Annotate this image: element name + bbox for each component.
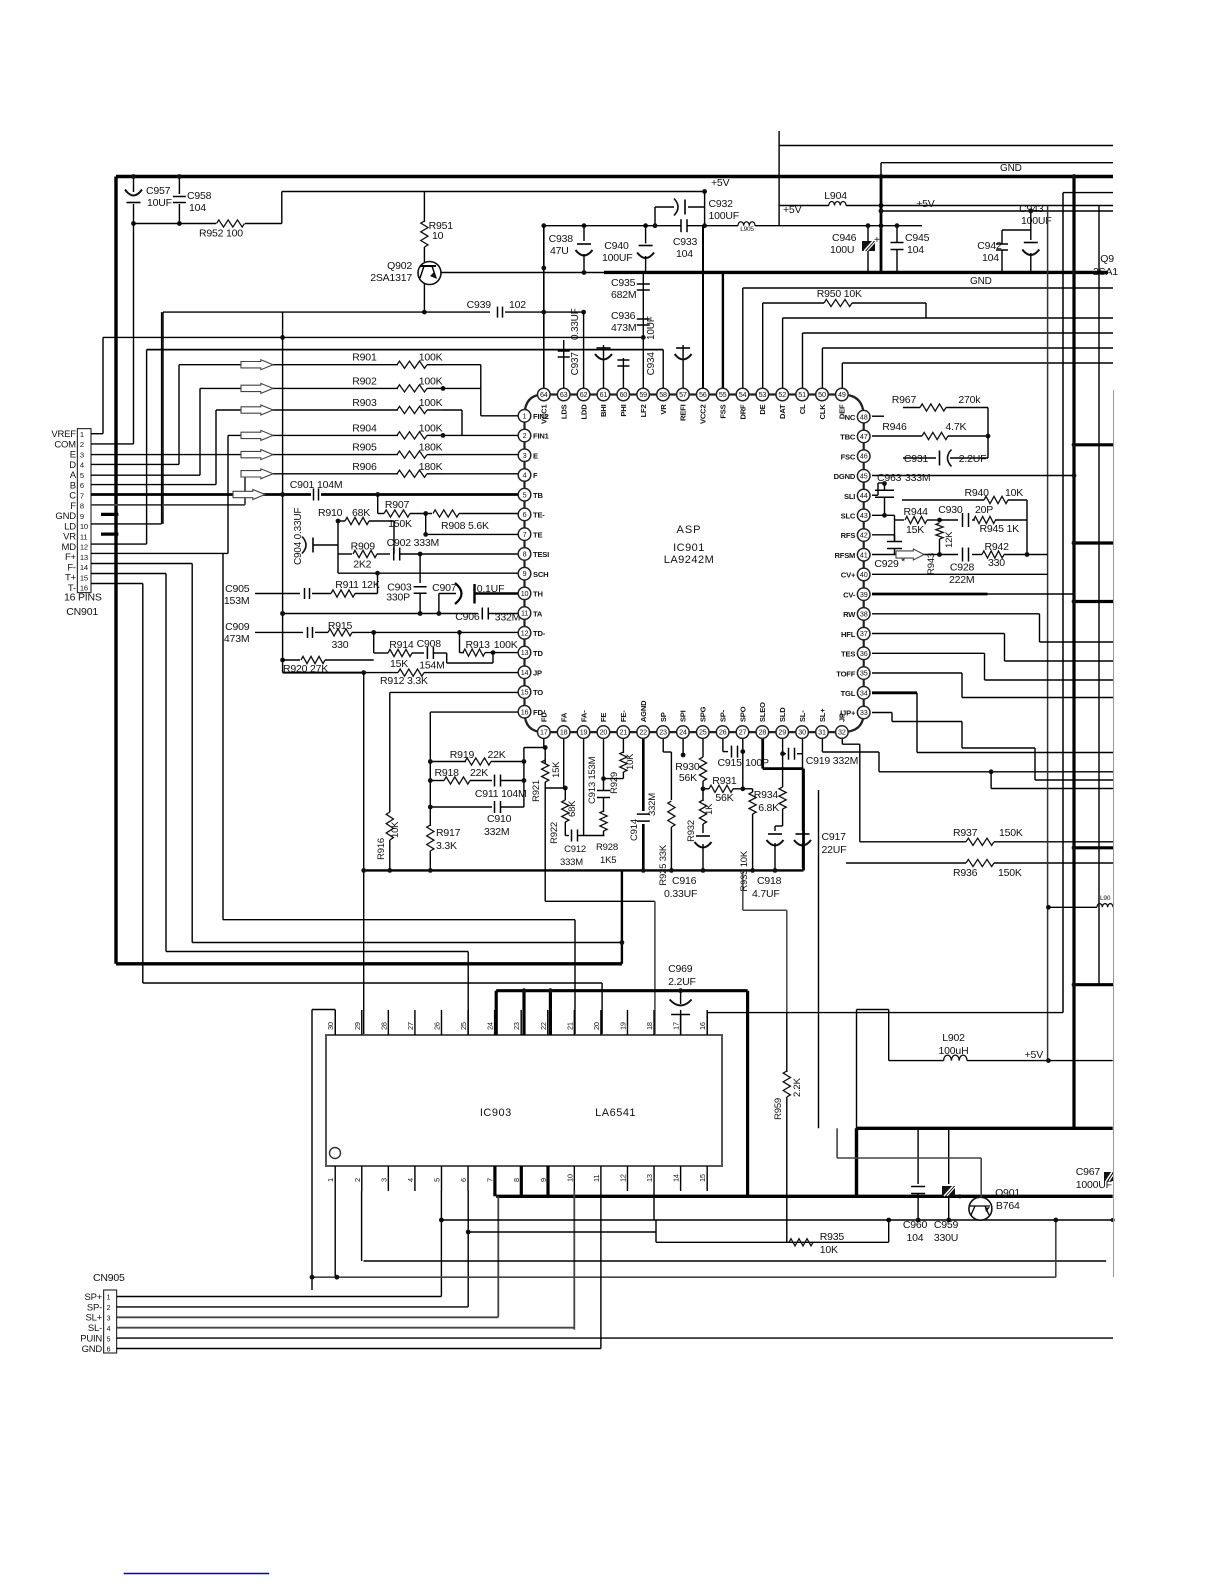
svg-text:104: 104 [907, 244, 924, 256]
svg-text:7: 7 [80, 491, 84, 500]
svg-text:13: 13 [645, 1174, 654, 1182]
svg-text:41: 41 [860, 550, 868, 559]
svg-text:270k: 270k [958, 394, 981, 406]
svg-text:100U: 100U [830, 244, 854, 256]
svg-text:15: 15 [521, 688, 529, 697]
svg-text:FSS: FSS [718, 404, 727, 418]
svg-text:SP: SP [659, 712, 668, 722]
svg-text:57: 57 [679, 390, 687, 399]
svg-text:11: 11 [592, 1175, 601, 1182]
svg-text:R931: R931 [712, 775, 737, 787]
svg-text:CN901: CN901 [66, 606, 98, 618]
svg-text:10: 10 [80, 522, 88, 531]
svg-text:C907: C907 [432, 582, 457, 594]
svg-text:2SA1317: 2SA1317 [370, 272, 412, 284]
svg-text:59: 59 [639, 390, 647, 399]
svg-text:332M: 332M [484, 826, 509, 838]
svg-text:19: 19 [580, 728, 588, 737]
svg-text:1: 1 [80, 430, 84, 439]
svg-text:3.3K: 3.3K [436, 840, 457, 852]
svg-text:6: 6 [523, 510, 527, 519]
svg-text:DRF: DRF [738, 404, 747, 420]
svg-text:50: 50 [818, 390, 826, 399]
svg-text:58: 58 [659, 390, 667, 399]
svg-text:C963: C963 [877, 472, 902, 484]
svg-text:FE-: FE- [619, 710, 628, 722]
svg-text:30: 30 [798, 728, 806, 737]
svg-text:5: 5 [523, 490, 527, 499]
svg-text:1: 1 [326, 1178, 335, 1182]
svg-text:60: 60 [619, 390, 627, 399]
svg-text:13: 13 [80, 553, 88, 562]
svg-text:56: 56 [699, 390, 707, 399]
svg-text:C969: C969 [668, 963, 693, 975]
svg-text:20: 20 [592, 1022, 601, 1030]
svg-text:29: 29 [353, 1022, 362, 1030]
svg-text:C912: C912 [564, 844, 586, 855]
svg-text:CN905: CN905 [93, 1272, 125, 1284]
svg-text:CV+: CV+ [841, 571, 856, 580]
svg-text:R917: R917 [436, 827, 461, 839]
svg-text:TGL: TGL [841, 689, 856, 698]
svg-text:C928: C928 [950, 562, 975, 574]
svg-text:56K: 56K [679, 772, 697, 784]
svg-text:12: 12 [618, 1174, 627, 1182]
svg-text:51: 51 [798, 390, 806, 399]
svg-text:100K: 100K [419, 375, 443, 387]
svg-text:1: 1 [523, 411, 527, 420]
svg-text:C958: C958 [187, 190, 212, 202]
svg-text:28: 28 [759, 728, 767, 737]
svg-text:SLC: SLC [841, 512, 856, 521]
svg-text:R934: R934 [754, 789, 779, 801]
svg-text:49: 49 [838, 390, 846, 399]
svg-text:26: 26 [719, 728, 727, 737]
svg-text:28: 28 [379, 1022, 388, 1030]
svg-text:C916: C916 [672, 875, 697, 887]
svg-text:LDS: LDS [559, 404, 568, 419]
svg-text:TB: TB [533, 491, 543, 500]
svg-text:2: 2 [80, 440, 84, 449]
svg-text:BHI: BHI [599, 404, 608, 417]
svg-text:20P: 20P [975, 504, 993, 516]
svg-text:C946: C946 [832, 232, 857, 244]
svg-text:IC901: IC901 [673, 542, 705, 554]
svg-text:3: 3 [379, 1178, 388, 1182]
svg-text:4: 4 [523, 471, 527, 480]
svg-text:330P: 330P [386, 592, 410, 604]
svg-text:29: 29 [778, 728, 786, 737]
svg-text:180K: 180K [419, 442, 443, 454]
svg-text:Q902: Q902 [387, 260, 412, 272]
svg-text:10: 10 [432, 230, 444, 242]
svg-text:R914: R914 [389, 639, 414, 651]
svg-text:SLD: SLD [778, 707, 787, 722]
svg-text:VCC1: VCC1 [540, 404, 549, 424]
svg-text:GND: GND [82, 1344, 103, 1355]
svg-text:LA9242M: LA9242M [664, 554, 715, 566]
svg-text:4.7UF: 4.7UF [752, 888, 780, 900]
svg-text:R903: R903 [352, 397, 377, 409]
svg-text:R929: R929 [609, 772, 620, 794]
svg-text:36: 36 [860, 649, 868, 658]
svg-text:VR: VR [659, 404, 668, 415]
svg-text:4: 4 [406, 1178, 415, 1182]
svg-text:R943: R943 [926, 553, 937, 575]
svg-text:SL-: SL- [88, 1323, 102, 1334]
svg-text:IC903: IC903 [480, 1107, 512, 1119]
svg-text:REFI: REFI [679, 404, 688, 421]
svg-text:R905: R905 [352, 442, 377, 454]
svg-text:31: 31 [818, 728, 826, 737]
svg-text:25: 25 [699, 728, 707, 737]
svg-text:4: 4 [80, 461, 84, 470]
svg-text:52: 52 [778, 390, 786, 399]
svg-text:3: 3 [523, 451, 527, 460]
svg-text:47: 47 [860, 432, 868, 441]
svg-text:TD: TD [533, 649, 543, 658]
svg-text:104M: 104M [317, 479, 342, 491]
svg-text:17: 17 [540, 728, 548, 737]
svg-text:16: 16 [698, 1022, 707, 1030]
svg-text:15: 15 [80, 573, 88, 582]
svg-text:32: 32 [838, 728, 846, 737]
svg-text:12: 12 [80, 543, 88, 552]
svg-text:R906: R906 [352, 461, 377, 473]
svg-text:F: F [533, 471, 538, 480]
svg-text:C906: C906 [455, 611, 480, 623]
svg-text:2.2UF: 2.2UF [959, 453, 987, 465]
svg-text:154M: 154M [419, 660, 444, 672]
svg-text:R925 33K: R925 33K [658, 844, 669, 886]
svg-text:10K: 10K [1005, 487, 1023, 499]
svg-text:C902 333M: C902 333M [387, 537, 439, 549]
svg-text:R911 12K: R911 12K [335, 579, 380, 591]
svg-text:150K: 150K [998, 867, 1022, 879]
svg-text:0.33UF: 0.33UF [570, 308, 581, 340]
svg-text:C936: C936 [611, 310, 636, 322]
svg-text:62: 62 [580, 390, 588, 399]
svg-text:10K: 10K [390, 821, 401, 838]
svg-text:C929: C929 [874, 558, 899, 570]
svg-text:6.8K: 6.8K [758, 802, 779, 814]
svg-text:RFS: RFS [841, 531, 856, 540]
svg-text:SL+: SL+ [818, 708, 827, 722]
svg-text:24: 24 [679, 728, 687, 737]
svg-text:19: 19 [618, 1022, 627, 1030]
svg-text:R916: R916 [376, 838, 387, 860]
svg-text:21: 21 [565, 1022, 574, 1030]
svg-text:R913: R913 [466, 639, 491, 651]
svg-text:100K: 100K [419, 422, 443, 434]
svg-text:B764: B764 [996, 1200, 1020, 1212]
svg-text:C938: C938 [549, 233, 574, 245]
svg-text:100K: 100K [494, 639, 518, 651]
svg-text:15K: 15K [390, 658, 408, 670]
svg-text:C919 332M: C919 332M [806, 755, 858, 767]
svg-text:9: 9 [523, 569, 527, 578]
svg-text:14: 14 [521, 668, 529, 677]
svg-text:R935: R935 [820, 1231, 845, 1243]
svg-text:C918: C918 [757, 875, 782, 887]
svg-text:22: 22 [539, 1022, 548, 1030]
svg-text:37: 37 [860, 629, 868, 638]
svg-text:30: 30 [326, 1022, 335, 1030]
svg-text:+5V: +5V [711, 177, 730, 189]
svg-text:GND: GND [970, 276, 992, 287]
svg-text:C939: C939 [467, 299, 492, 311]
svg-text:8: 8 [80, 502, 84, 511]
svg-text:TO: TO [533, 688, 543, 697]
svg-text:CV-: CV- [843, 590, 856, 599]
svg-text:13: 13 [521, 648, 529, 657]
svg-text:L904: L904 [824, 190, 847, 202]
svg-text:333M: 333M [560, 857, 583, 868]
svg-text:R901: R901 [352, 352, 377, 364]
svg-text:104: 104 [189, 202, 206, 214]
svg-text:TES: TES [841, 650, 855, 659]
svg-text:R967: R967 [892, 394, 917, 406]
svg-text:18: 18 [645, 1022, 654, 1030]
svg-text:100K: 100K [419, 352, 443, 364]
svg-text:100UF: 100UF [709, 210, 740, 222]
svg-text:2: 2 [107, 1305, 111, 1312]
svg-text:15K: 15K [906, 524, 924, 536]
svg-text:L902: L902 [942, 1032, 965, 1044]
svg-text:LA6541: LA6541 [595, 1107, 636, 1119]
svg-text:SCH: SCH [533, 570, 548, 579]
svg-text:64: 64 [540, 390, 548, 399]
svg-text:20: 20 [600, 728, 608, 737]
svg-text:330U: 330U [934, 1232, 958, 1244]
svg-text:C911 104M: C911 104M [475, 788, 527, 800]
svg-text:2K2: 2K2 [353, 559, 371, 571]
svg-text:150K: 150K [999, 827, 1023, 839]
svg-text:63: 63 [560, 390, 568, 399]
svg-text:68K: 68K [567, 800, 578, 817]
svg-text:DEF: DEF [838, 404, 847, 419]
svg-text:C908: C908 [417, 638, 442, 650]
svg-text:FA-: FA- [579, 710, 588, 722]
svg-text:JP: JP [838, 713, 847, 722]
svg-text:10: 10 [521, 589, 529, 598]
svg-text:+5V: +5V [783, 204, 802, 216]
svg-text:RW: RW [843, 610, 856, 619]
svg-text:R940: R940 [965, 487, 990, 499]
svg-text:C945: C945 [905, 232, 930, 244]
svg-text:332M: 332M [647, 793, 658, 816]
svg-text:C959: C959 [934, 1219, 959, 1231]
svg-text:ASP: ASP [676, 524, 701, 536]
svg-text:CLK: CLK [818, 404, 827, 420]
svg-text:330: 330 [988, 557, 1005, 569]
svg-text:42: 42 [860, 531, 868, 540]
svg-text:18: 18 [560, 728, 568, 737]
svg-text:R928: R928 [596, 842, 618, 853]
svg-text:C914: C914 [629, 819, 640, 841]
svg-text:11: 11 [521, 609, 528, 618]
svg-text:TD-: TD- [533, 629, 546, 638]
svg-text:R944: R944 [904, 506, 929, 518]
svg-text:16 PINS: 16 PINS [64, 592, 102, 604]
svg-text:12K: 12K [944, 531, 955, 548]
svg-text:TOFF: TOFF [836, 669, 855, 678]
svg-text:R915: R915 [328, 620, 353, 632]
svg-text:SP-: SP- [87, 1302, 102, 1313]
svg-text:46: 46 [860, 452, 868, 461]
svg-text:39: 39 [860, 590, 868, 599]
svg-text:DAT: DAT [778, 404, 787, 419]
svg-text:104: 104 [982, 252, 999, 264]
svg-text:FD-: FD- [533, 708, 546, 717]
svg-text:C937: C937 [570, 352, 581, 376]
svg-text:100K: 100K [419, 397, 443, 409]
svg-text:JP: JP [533, 668, 542, 677]
svg-text:1: 1 [107, 1295, 111, 1302]
svg-text:10UF: 10UF [147, 197, 172, 209]
svg-text:PHI: PHI [619, 404, 628, 416]
svg-text:AGND: AGND [639, 700, 648, 722]
svg-text:SP-: SP- [718, 709, 727, 722]
svg-text:35: 35 [860, 669, 868, 678]
svg-text:R907: R907 [385, 499, 410, 511]
svg-text:C931: C931 [904, 453, 929, 465]
svg-text:5: 5 [107, 1336, 111, 1343]
svg-text:333M: 333M [905, 472, 930, 484]
svg-text:27: 27 [739, 728, 747, 737]
svg-text:45: 45 [860, 471, 868, 480]
svg-text:473M: 473M [224, 633, 249, 645]
svg-text:C905: C905 [225, 583, 250, 595]
svg-text:10: 10 [565, 1174, 574, 1182]
svg-text:C933: C933 [673, 236, 698, 248]
svg-text:180K: 180K [419, 461, 443, 473]
svg-text:C934: C934 [646, 352, 657, 376]
svg-text:27: 27 [406, 1022, 415, 1030]
svg-text:C935: C935 [611, 277, 636, 289]
svg-text:1K: 1K [704, 803, 715, 815]
svg-text:7: 7 [486, 1178, 495, 1182]
svg-text:PUIN: PUIN [80, 1334, 102, 1345]
svg-text:4.7K: 4.7K [946, 421, 967, 433]
svg-text:3: 3 [107, 1316, 111, 1323]
svg-text:C967: C967 [1076, 1166, 1101, 1178]
svg-text:6: 6 [80, 481, 84, 490]
svg-text:15: 15 [698, 1174, 707, 1182]
svg-text:R921: R921 [531, 780, 542, 802]
svg-text:SLI: SLI [844, 492, 855, 501]
svg-text:DGND: DGND [834, 472, 856, 481]
svg-text:8: 8 [523, 550, 527, 559]
svg-text:C940: C940 [604, 240, 629, 252]
svg-text:7: 7 [523, 530, 527, 539]
svg-text:R945 1K: R945 1K [980, 523, 1020, 535]
svg-text:R942: R942 [985, 541, 1010, 553]
svg-text:R937: R937 [953, 827, 978, 839]
svg-text:44: 44 [860, 491, 868, 500]
svg-text:R919: R919 [450, 749, 475, 761]
svg-text:R904: R904 [352, 422, 377, 434]
svg-text:150K: 150K [388, 518, 412, 530]
svg-text:2.2UF: 2.2UF [668, 976, 696, 988]
svg-text:34: 34 [860, 688, 868, 697]
svg-text:Q9: Q9 [1100, 253, 1114, 265]
svg-text:C917: C917 [822, 831, 847, 843]
svg-text:SL-: SL- [798, 710, 807, 722]
svg-text:6: 6 [107, 1347, 111, 1354]
svg-text:C901: C901 [290, 479, 315, 491]
svg-text:40: 40 [860, 570, 868, 579]
svg-text:+: + [874, 235, 880, 246]
svg-text:1K5: 1K5 [600, 855, 616, 866]
svg-text:6: 6 [459, 1178, 468, 1182]
svg-text:SL+: SL+ [86, 1313, 103, 1324]
svg-text:R918: R918 [435, 767, 460, 779]
svg-text:14: 14 [80, 563, 88, 572]
svg-text:2: 2 [353, 1178, 362, 1182]
svg-text:R932: R932 [686, 820, 697, 842]
svg-text:+5V: +5V [1025, 1049, 1044, 1061]
svg-text:22K: 22K [470, 767, 488, 779]
svg-text:SPG: SPG [699, 706, 708, 722]
svg-text:FSC: FSC [841, 452, 856, 461]
svg-text:473M: 473M [611, 322, 636, 334]
svg-text:SPO: SPO [738, 706, 747, 722]
svg-text:LF2: LF2 [639, 405, 648, 418]
svg-text:Q901: Q901 [995, 1187, 1020, 1199]
svg-text:332M: 332M [495, 612, 520, 624]
svg-text:R910: R910 [318, 507, 343, 519]
svg-text:11: 11 [80, 532, 87, 541]
svg-text:26: 26 [432, 1022, 441, 1030]
svg-text:2.2K: 2.2K [792, 1077, 803, 1097]
svg-text:C904 0.33UF: C904 0.33UF [293, 508, 304, 565]
svg-text:56K: 56K [715, 792, 733, 804]
svg-text:SLEO: SLEO [758, 702, 767, 722]
svg-text:16: 16 [521, 707, 529, 716]
svg-text:0.1UF: 0.1UF [477, 583, 505, 595]
svg-text:4: 4 [107, 1326, 111, 1333]
svg-text:33: 33 [860, 708, 868, 717]
svg-text:LDD: LDD [579, 404, 588, 420]
svg-text:9: 9 [80, 512, 84, 521]
svg-text:C942: C942 [977, 240, 1002, 252]
svg-text:DE: DE [758, 404, 767, 414]
svg-text:GND: GND [1000, 163, 1022, 174]
svg-text:54: 54 [739, 390, 747, 399]
svg-text:R946: R946 [882, 421, 907, 433]
svg-text:43: 43 [860, 511, 868, 520]
svg-text:61: 61 [600, 390, 608, 399]
svg-text:+5V: +5V [916, 198, 935, 210]
svg-text:R912 3.3K: R912 3.3K [380, 675, 428, 687]
svg-text:RFSM: RFSM [834, 551, 855, 560]
svg-text:TH: TH [533, 590, 543, 599]
svg-text:21: 21 [619, 728, 627, 737]
svg-text:L90: L90 [1100, 895, 1111, 902]
svg-text:C960: C960 [903, 1219, 928, 1231]
svg-text:R908 5.6K: R908 5.6K [441, 520, 489, 532]
svg-text:330: 330 [332, 639, 349, 651]
svg-text:C915: C915 [718, 757, 743, 769]
svg-text:C909: C909 [225, 621, 250, 633]
svg-text:R909: R909 [351, 541, 376, 553]
svg-text:682M: 682M [611, 289, 636, 301]
svg-text:10UF: 10UF [646, 316, 657, 340]
svg-text:55: 55 [719, 390, 727, 399]
svg-text:14: 14 [672, 1174, 681, 1182]
svg-text:15K: 15K [551, 761, 562, 778]
